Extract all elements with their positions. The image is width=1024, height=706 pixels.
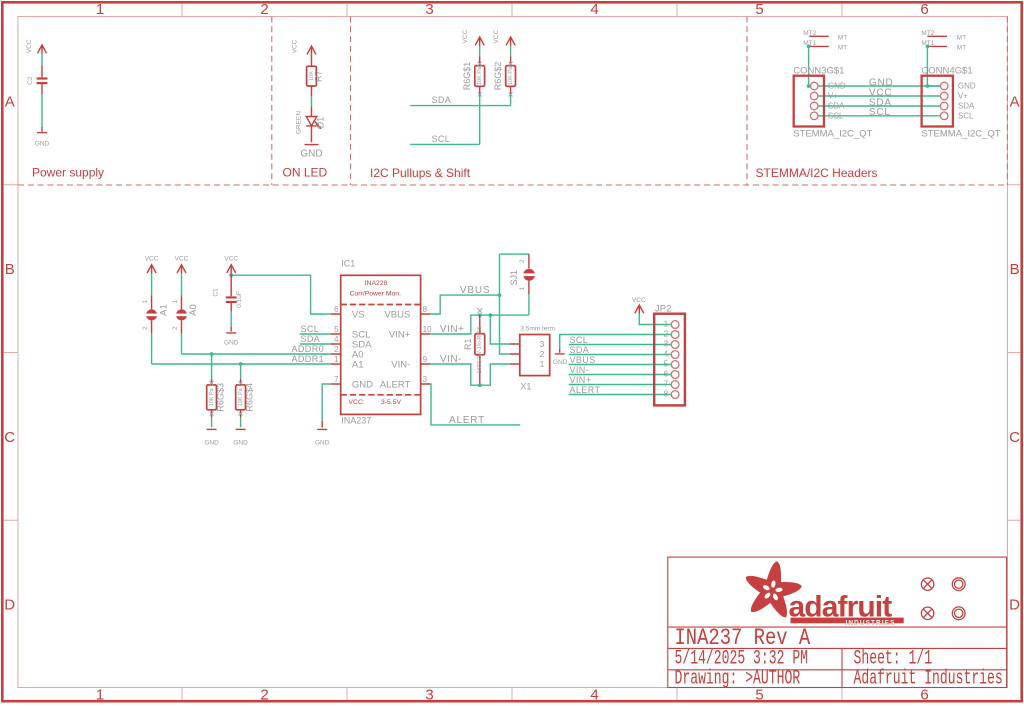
svg-text:SDA: SDA bbox=[432, 95, 452, 105]
svg-text:2: 2 bbox=[260, 1, 268, 18]
ground (JP2 pin 2) bbox=[553, 349, 568, 366]
svg-text:8: 8 bbox=[663, 389, 668, 399]
svg-text:INA237: INA237 bbox=[341, 415, 371, 425]
svg-text:SCL: SCL bbox=[869, 107, 891, 118]
svg-text:SCL: SCL bbox=[958, 111, 974, 120]
svg-text:SCL: SCL bbox=[432, 134, 451, 144]
svg-text:VS: VS bbox=[352, 309, 365, 320]
wire GND pin 7 bbox=[322, 384, 331, 421]
svg-text:3.5mm term: 3.5mm term bbox=[520, 326, 555, 333]
svg-text:7: 7 bbox=[334, 375, 339, 384]
svg-text:A1: A1 bbox=[158, 304, 169, 316]
svg-text:A: A bbox=[5, 94, 15, 111]
svg-text:6: 6 bbox=[663, 369, 668, 379]
VCC symbol (power supply) bbox=[26, 39, 46, 54]
svg-text:ALERT: ALERT bbox=[570, 385, 601, 395]
wire SDA bbox=[410, 105, 510, 107]
svg-text:GND: GND bbox=[224, 340, 239, 347]
svg-text:ADDR0: ADDR0 bbox=[292, 344, 325, 354]
wire R6G$1 to SCL bbox=[479, 94, 481, 145]
svg-text:VIN+: VIN+ bbox=[570, 375, 592, 385]
wire VCC between headers bbox=[818, 95, 940, 97]
wire GND between headers bbox=[818, 85, 940, 87]
svg-text:ADDR1: ADDR1 bbox=[292, 354, 325, 364]
svg-text:ALERT: ALERT bbox=[449, 415, 485, 426]
wire R6G$4 to GND bbox=[240, 418, 242, 428]
svg-text:STEMMA_I2C_QT: STEMMA_I2C_QT bbox=[921, 129, 1000, 140]
svg-text:VIN-: VIN- bbox=[391, 359, 410, 370]
Adafruit logo flower bbox=[746, 561, 802, 617]
svg-text:VBUS: VBUS bbox=[570, 355, 596, 365]
VCC symbol (A1) bbox=[145, 256, 159, 274]
fiducial cross circle 1 bbox=[921, 578, 965, 620]
svg-text:GND: GND bbox=[352, 379, 373, 390]
svg-text:X1: X1 bbox=[520, 381, 531, 391]
svg-text:V+: V+ bbox=[828, 92, 838, 101]
wire LED to GND bbox=[311, 126, 313, 142]
resistor R6G$1 value 10K bbox=[462, 56, 484, 96]
pin labels CONN4G$1 bbox=[958, 82, 976, 121]
svg-text:VCC: VCC bbox=[493, 29, 500, 43]
svg-text:SDA: SDA bbox=[958, 102, 975, 111]
svg-text:VCC:: VCC: bbox=[349, 399, 365, 406]
svg-text:10K Pa: 10K Pa bbox=[508, 66, 514, 85]
svg-text:C2: C2 bbox=[27, 76, 34, 85]
wire R6G$2 to SDA bbox=[510, 94, 512, 106]
svg-text:D: D bbox=[4, 597, 15, 614]
VCC symbol (R6G$1) bbox=[462, 29, 484, 46]
solder jumper SJ1 bbox=[509, 254, 537, 315]
node junction ADDR1/R6G$4 bbox=[239, 362, 243, 366]
svg-text:Drawing: >AUTHOR: Drawing: >AUTHOR bbox=[675, 668, 801, 690]
wire SCL to JP2 pin 3 bbox=[569, 344, 671, 346]
connector X1 3.5mm term bbox=[510, 326, 555, 392]
pin numbers IC1 bbox=[334, 305, 432, 384]
connector CONN3G$1 STEMMA_I2C_QT bbox=[793, 30, 872, 140]
svg-text:2: 2 bbox=[142, 326, 149, 330]
wire SDA between headers bbox=[818, 105, 940, 107]
svg-text:MT: MT bbox=[957, 45, 966, 52]
svg-text:3-5.5V: 3-5.5V bbox=[381, 399, 401, 406]
ground (R6G$4) bbox=[233, 429, 248, 446]
wire ADDR0 bbox=[182, 353, 332, 355]
node junction ADDR0/R6G$3 bbox=[210, 352, 214, 356]
wire VIN- to JP2 pin 6 bbox=[569, 374, 671, 376]
svg-text:ON LED: ON LED bbox=[283, 166, 328, 180]
svg-text:VIN-: VIN- bbox=[440, 354, 462, 365]
svg-text:1: 1 bbox=[334, 355, 339, 364]
wire A1 to ADDR1 bbox=[151, 334, 153, 364]
VCC symbol (ON LED) bbox=[292, 39, 317, 55]
wire VCC to JP2 pin 1 bbox=[639, 313, 671, 325]
wire VIN+ to JP2 pin 7 bbox=[569, 384, 671, 386]
svg-text:VCC: VCC bbox=[462, 29, 469, 43]
svg-text:1: 1 bbox=[540, 359, 545, 369]
wire R7 to LED bbox=[311, 86, 313, 96]
svg-text:SCL: SCL bbox=[828, 111, 844, 120]
svg-text:B: B bbox=[5, 261, 15, 278]
svg-text:VBUS: VBUS bbox=[460, 285, 490, 296]
svg-text:1: 1 bbox=[172, 300, 179, 304]
wire VCC to R6G$2 bbox=[510, 46, 512, 57]
connector JP2 bbox=[654, 304, 685, 406]
pin circles CONN3G$1 bbox=[810, 82, 818, 119]
IC IC1 INA228/INA237 current/power monitor bbox=[331, 259, 432, 426]
node junction VBUS bbox=[498, 293, 502, 297]
svg-text:GND: GND bbox=[315, 440, 330, 447]
node junction VIN-/R1 bottom bbox=[478, 383, 482, 387]
wire ALERT to JP2 pin 8 bbox=[569, 394, 671, 396]
svg-text:3: 3 bbox=[540, 339, 545, 349]
wire SDA stub bbox=[300, 343, 331, 345]
connector CONN4G$1 STEMMA_I2C_QT bbox=[921, 30, 1000, 140]
svg-text:STEMMA/I2C Headers: STEMMA/I2C Headers bbox=[756, 166, 878, 180]
svg-text:CONN3G$1: CONN3G$1 bbox=[793, 65, 844, 76]
wire SDA to JP2 pin 4 bbox=[569, 354, 671, 356]
pin numbers JP2 bbox=[663, 319, 668, 399]
svg-text:D1: D1 bbox=[315, 117, 325, 129]
wire VCC to R7 bbox=[311, 55, 313, 66]
svg-text:10: 10 bbox=[423, 325, 432, 334]
pin stubs IC1 bbox=[331, 314, 430, 384]
pin circles JP2 bbox=[671, 321, 679, 399]
ground (IC1 pin 7) bbox=[315, 421, 330, 447]
wire VCC to VS pin 6 bbox=[231, 275, 331, 314]
svg-text:9: 9 bbox=[423, 355, 428, 364]
svg-text:STEMMA_I2C_QT: STEMMA_I2C_QT bbox=[793, 129, 872, 140]
svg-text:ALERT: ALERT bbox=[380, 379, 411, 390]
wire X1 pin3 riser bbox=[490, 315, 510, 344]
wire ALERT net bbox=[430, 384, 520, 425]
svg-text:A1: A1 bbox=[352, 359, 364, 370]
svg-text:1: 1 bbox=[663, 319, 668, 329]
svg-text:5/14/2025 3:32 PM: 5/14/2025 3:32 PM bbox=[675, 648, 809, 670]
VCC symbol (R6G$2) bbox=[493, 29, 515, 46]
svg-text:3: 3 bbox=[425, 687, 433, 704]
capacitor C2 bbox=[27, 65, 48, 95]
wire VIN- net bbox=[430, 364, 510, 385]
resistor R6G$4 value 10K bbox=[236, 379, 255, 418]
title block text bbox=[675, 625, 1003, 690]
svg-text:SJ1: SJ1 bbox=[509, 270, 519, 286]
LED D1 GREEN bbox=[295, 111, 325, 134]
svg-text:1: 1 bbox=[519, 286, 526, 290]
ground (ON LED) bbox=[300, 145, 322, 160]
svg-text:1: 1 bbox=[142, 300, 149, 304]
svg-text:GND: GND bbox=[553, 359, 568, 366]
svg-text:A: A bbox=[1010, 94, 1020, 111]
capacitor C1 0.1uF bbox=[213, 274, 244, 312]
svg-text:GND: GND bbox=[204, 440, 219, 447]
wire SCL stub bbox=[300, 333, 331, 335]
svg-text:MT: MT bbox=[838, 35, 847, 42]
svg-text:VBUS: VBUS bbox=[384, 309, 410, 320]
svg-text:Sheet: 1/1: Sheet: 1/1 bbox=[854, 648, 933, 670]
wire ADDR1 bbox=[152, 363, 331, 365]
svg-text:1632-2W-1%-R015: 1632-2W-1%-R015 bbox=[477, 327, 483, 374]
node junction VIN+/X1 pin3 riser bbox=[488, 313, 492, 317]
wire ADDR0 to R6G$3 bbox=[211, 354, 213, 379]
svg-text:2: 2 bbox=[663, 329, 668, 339]
wire VCC to R6G$1 bbox=[479, 46, 481, 57]
pin circles CONN4G$1 bbox=[940, 82, 948, 119]
resistor R1 shunt bbox=[463, 308, 485, 385]
svg-text:4: 4 bbox=[663, 349, 668, 359]
svg-text:3: 3 bbox=[425, 1, 433, 18]
svg-text:2: 2 bbox=[334, 345, 339, 354]
wire VBUS riser to SJ1/X1 pin2 bbox=[500, 254, 529, 354]
svg-text:2: 2 bbox=[172, 326, 179, 330]
svg-text:4: 4 bbox=[590, 687, 598, 704]
svg-text:SCL: SCL bbox=[301, 324, 320, 334]
wire A0 to ADDR0 bbox=[181, 334, 183, 354]
svg-text:SDA: SDA bbox=[828, 102, 845, 111]
svg-text:Power supply: Power supply bbox=[32, 166, 104, 180]
svg-text:CONN4G$1: CONN4G$1 bbox=[921, 65, 972, 76]
svg-text:5: 5 bbox=[334, 325, 339, 334]
svg-text:C: C bbox=[1009, 429, 1020, 446]
ground (R6G$3) bbox=[204, 429, 219, 446]
svg-text:10K Pa: 10K Pa bbox=[477, 66, 483, 85]
wire R6G$3 to GND bbox=[211, 418, 213, 428]
svg-text:D: D bbox=[1009, 597, 1020, 614]
svg-text:INDUSTRIES: INDUSTRIES bbox=[846, 619, 896, 626]
wire MT1 to GND pin bbox=[927, 46, 940, 86]
svg-text:MT: MT bbox=[957, 35, 966, 42]
svg-text:3: 3 bbox=[423, 375, 428, 384]
solder jumper A0 bbox=[172, 295, 199, 333]
svg-text:10K Pa: 10K Pa bbox=[238, 387, 244, 406]
wire VCC to A0 bbox=[181, 274, 183, 296]
VCC symbol (JP2) bbox=[632, 297, 646, 314]
svg-text:VIN+: VIN+ bbox=[440, 324, 465, 335]
svg-text:GND: GND bbox=[958, 82, 976, 91]
svg-text:Adafruit Industries: Adafruit Industries bbox=[854, 668, 1003, 690]
svg-text:MT: MT bbox=[838, 45, 847, 52]
pin names IC1 bbox=[352, 309, 411, 390]
svg-text:VIN-: VIN- bbox=[570, 365, 590, 375]
svg-text:R6G$2: R6G$2 bbox=[493, 62, 503, 91]
mounting hole 1 bbox=[952, 578, 965, 591]
wire VCC to C2 bbox=[41, 54, 43, 65]
node junction GND pin bbox=[926, 84, 930, 88]
svg-text:GREEN: GREEN bbox=[295, 111, 302, 134]
svg-text:GND: GND bbox=[828, 82, 846, 91]
wire VCC to A1 bbox=[151, 274, 153, 296]
node junction VIN+/R1 top bbox=[478, 313, 482, 317]
svg-text:B: B bbox=[1010, 261, 1020, 278]
svg-text:5: 5 bbox=[755, 1, 763, 18]
svg-text:A0: A0 bbox=[188, 304, 199, 316]
node junction GND pin bbox=[807, 84, 811, 88]
svg-text:I2C Pullups & Shift: I2C Pullups & Shift bbox=[370, 166, 471, 180]
wire JP2 pin2 to GND bbox=[560, 335, 672, 349]
svg-text:Curr/Power Mon.: Curr/Power Mon. bbox=[350, 290, 401, 297]
svg-text:2: 2 bbox=[519, 259, 526, 263]
svg-text:5: 5 bbox=[663, 359, 668, 369]
svg-text:2: 2 bbox=[260, 687, 268, 704]
wire VBUS to JP2 pin 5 bbox=[569, 364, 671, 366]
svg-text:R1: R1 bbox=[463, 339, 473, 351]
mounting hole 2 bbox=[952, 607, 965, 620]
ground (power supply) bbox=[35, 127, 50, 148]
svg-text:1: 1 bbox=[96, 1, 104, 18]
node junction MT1 bbox=[807, 45, 811, 49]
wire SCL bbox=[410, 143, 480, 145]
svg-text:JP2: JP2 bbox=[655, 304, 671, 315]
svg-text:GND: GND bbox=[233, 440, 248, 447]
wire ADDR1 to R6G$4 bbox=[240, 364, 242, 379]
ground (C1) bbox=[224, 327, 239, 347]
svg-text:SDA: SDA bbox=[570, 345, 590, 355]
svg-text:VIN+: VIN+ bbox=[389, 329, 411, 340]
svg-text:10K Pa: 10K Pa bbox=[209, 387, 215, 406]
svg-text:R6G$3: R6G$3 bbox=[216, 383, 226, 412]
svg-text:IC1: IC1 bbox=[341, 259, 355, 269]
svg-text:VCC: VCC bbox=[175, 256, 189, 263]
wire VIN+ net bbox=[430, 315, 529, 334]
svg-text:0.1uF: 0.1uF bbox=[236, 291, 243, 308]
svg-text:VCC: VCC bbox=[632, 297, 646, 304]
svg-text:8: 8 bbox=[423, 305, 428, 314]
wire MT1 to GND pin bbox=[809, 46, 811, 86]
svg-text:VCC: VCC bbox=[26, 39, 33, 53]
svg-text:6: 6 bbox=[920, 1, 928, 18]
svg-text:V+: V+ bbox=[958, 92, 968, 101]
resistor R6G$2 value 10K bbox=[493, 56, 515, 96]
dashed section dividers bbox=[18, 17, 1008, 186]
svg-text:VCC: VCC bbox=[292, 39, 299, 53]
svg-text:1: 1 bbox=[96, 687, 104, 704]
svg-text:GND: GND bbox=[300, 149, 322, 160]
svg-text:C1: C1 bbox=[213, 288, 220, 297]
svg-text:R7: R7 bbox=[314, 70, 324, 82]
svg-text:7: 7 bbox=[663, 379, 668, 389]
node junction VCC/C1 bbox=[229, 273, 233, 277]
resistor R6G$3 value 10K bbox=[207, 379, 226, 418]
svg-text:R6G$4: R6G$4 bbox=[245, 383, 255, 412]
svg-text:6: 6 bbox=[334, 305, 339, 314]
wire SCL between headers bbox=[818, 115, 940, 117]
svg-text:C: C bbox=[4, 429, 15, 446]
svg-text:VCC: VCC bbox=[145, 256, 159, 263]
svg-text:2: 2 bbox=[540, 349, 545, 359]
svg-text:VCC: VCC bbox=[224, 256, 238, 263]
svg-text:4: 4 bbox=[334, 335, 339, 344]
svg-text:3: 3 bbox=[663, 339, 668, 349]
node junction MT1 bbox=[926, 45, 930, 49]
svg-text:SDA: SDA bbox=[301, 334, 321, 344]
pin labels CONN3G$1 bbox=[828, 82, 846, 121]
svg-text:R6G$1: R6G$1 bbox=[462, 62, 472, 91]
solder jumper A1 bbox=[142, 295, 169, 333]
fiducial cross circle 2 bbox=[921, 607, 933, 619]
wire C1 to GND bbox=[230, 312, 232, 327]
VCC symbol (IC supply) bbox=[224, 256, 238, 274]
svg-text:INA228: INA228 bbox=[365, 280, 388, 287]
svg-text:GND: GND bbox=[35, 141, 50, 148]
svg-text:4: 4 bbox=[590, 1, 598, 18]
svg-text:SCL: SCL bbox=[570, 335, 589, 345]
resistor R7 value 10K bbox=[307, 66, 324, 86]
wire VBUS net bbox=[430, 295, 499, 314]
wire C2 to GND bbox=[41, 95, 43, 127]
VCC symbol (A0) bbox=[175, 256, 189, 274]
